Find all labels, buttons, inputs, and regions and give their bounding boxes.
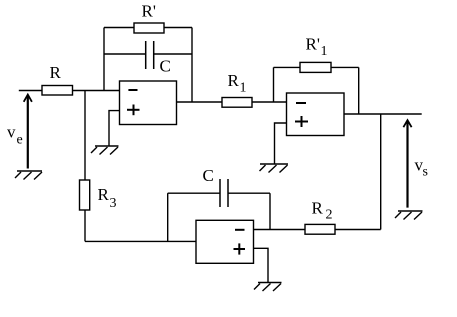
wire C2 branch right — [228, 192, 270, 194]
svg-text:s: s — [423, 165, 428, 180]
svg-text:2: 2 — [326, 208, 333, 223]
U2 minus sign — [296, 102, 306, 104]
svg-text:R: R — [312, 199, 324, 218]
op-amp U2 — [287, 93, 345, 136]
resistor R'1 — [300, 62, 331, 72]
U2 plus sign — [295, 116, 308, 127]
resistor R — [42, 86, 73, 96]
ground U3 — [254, 283, 282, 292]
wire R to op-amp U1 inverting input — [73, 90, 120, 92]
wire bottom rail U3 output to R3 — [85, 240, 196, 242]
wire U1 plus input to ground — [109, 111, 120, 146]
wire feedback-2 left vertical — [273, 67, 275, 102]
op-amp U1 — [120, 81, 177, 125]
wire feedback-2 right vertical — [358, 67, 360, 114]
svg-text:R: R — [228, 71, 240, 90]
capacitor C (first integrator feedback) — [146, 41, 154, 69]
wire R3 to bottom rail — [84, 210, 86, 241]
wire C1 branch left — [104, 53, 146, 55]
wire R1 to op-amp U2 — [252, 101, 287, 103]
svg-text:1: 1 — [240, 81, 247, 96]
wire U1 output to R1 — [177, 101, 223, 103]
wire U2 output to vs node — [344, 113, 422, 115]
wire C2 branch left — [168, 192, 220, 194]
ground U2 — [260, 164, 289, 173]
svg-text:R': R' — [142, 2, 156, 21]
wire R'1 top branch — [274, 66, 359, 68]
U3 minus sign — [235, 229, 245, 231]
wire C1 branch right — [154, 53, 192, 55]
wire input from ve to R — [19, 90, 42, 92]
resistor R2 — [305, 224, 335, 234]
node A junction: wire down to R3 — [84, 91, 86, 181]
ground U1 — [91, 146, 119, 155]
wire feedback-1 left vertical — [103, 28, 105, 91]
svg-text:R: R — [50, 63, 62, 82]
svg-text:e: e — [17, 133, 23, 148]
wire R2 to vs branch — [335, 229, 381, 231]
svg-text:v: v — [7, 123, 16, 142]
svg-text:R': R' — [306, 35, 320, 54]
wire U3 plus input to ground — [254, 248, 269, 282]
wire feedback-3 left vertical — [167, 193, 169, 241]
resistor R' — [134, 23, 164, 33]
source arrow vs — [403, 120, 411, 207]
wire U2 plus input to ground — [275, 123, 287, 164]
U1 minus sign — [128, 89, 137, 91]
ground under ve — [15, 171, 42, 180]
capacitor C (second integrator feedback) — [220, 179, 228, 207]
wire vs node down to R2 — [380, 114, 382, 230]
wire feedback-1 right vertical — [191, 28, 193, 103]
svg-text:C: C — [203, 166, 214, 185]
wire feedback-3 right vertical — [269, 193, 271, 229]
wire R2 to U3 inverting input — [254, 229, 306, 231]
ground under vs — [395, 211, 423, 220]
svg-text:1: 1 — [321, 44, 328, 59]
svg-text:C: C — [160, 57, 171, 76]
svg-text:3: 3 — [110, 196, 117, 211]
U1 plus sign — [127, 105, 140, 116]
wire R' top branch — [104, 27, 192, 29]
U3 plus sign — [234, 243, 246, 254]
resistor R3 — [80, 180, 90, 210]
source arrow ve — [24, 95, 32, 169]
op-amp U3 (mirrored) — [196, 220, 254, 263]
svg-text:R: R — [98, 185, 110, 204]
resistor R1 — [222, 98, 252, 108]
